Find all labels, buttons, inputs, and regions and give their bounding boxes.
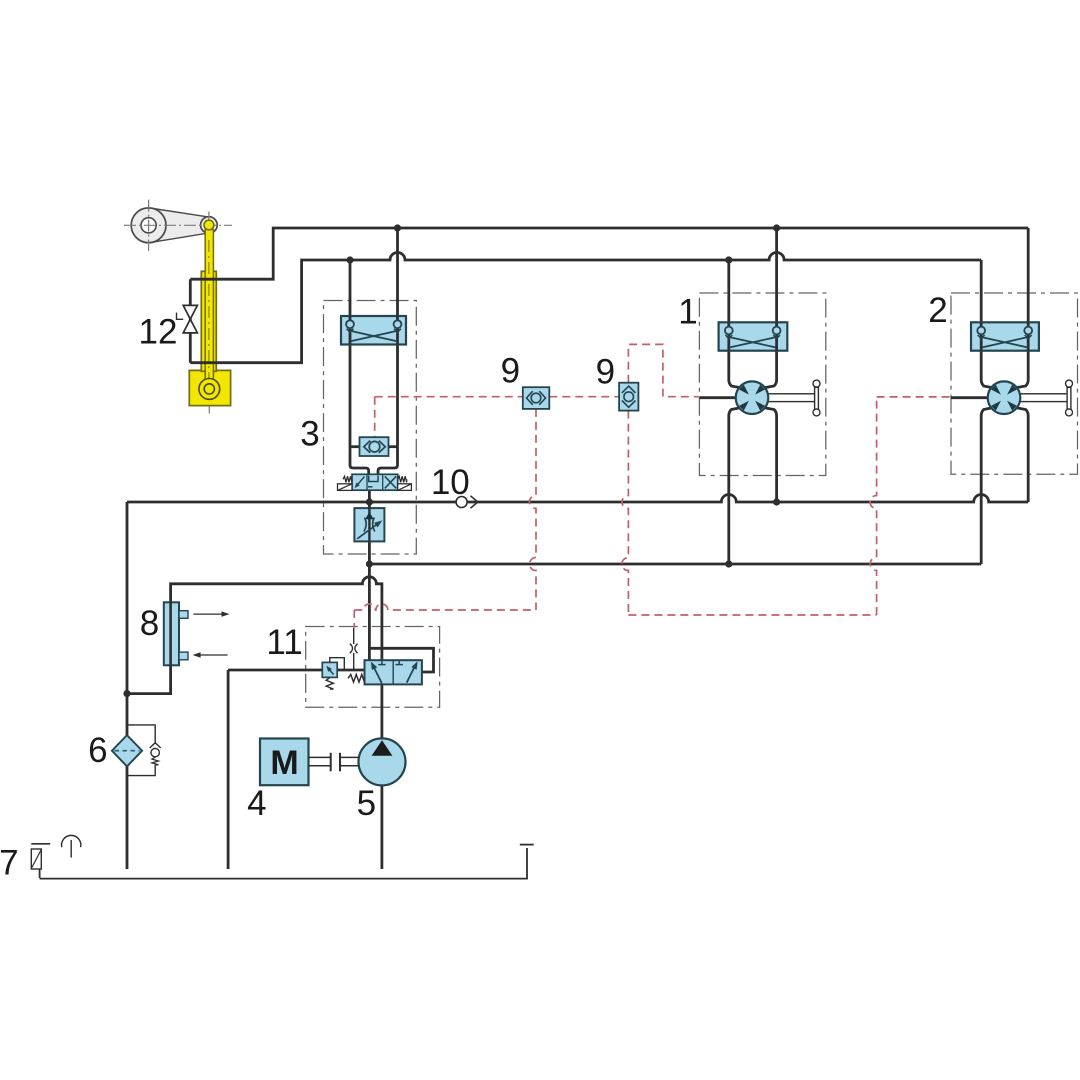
svg-text:12: 12	[139, 312, 178, 351]
svg-text:2: 2	[928, 291, 947, 330]
svg-text:1: 1	[678, 293, 697, 332]
svg-text:9: 9	[501, 352, 520, 391]
svg-text:3: 3	[300, 415, 319, 454]
svg-text:11: 11	[266, 623, 302, 662]
svg-text:9: 9	[596, 353, 615, 392]
svg-text:M: M	[270, 744, 298, 782]
svg-text:5: 5	[357, 784, 376, 823]
svg-text:4: 4	[247, 784, 266, 823]
svg-text:8: 8	[140, 604, 159, 643]
svg-text:6: 6	[88, 731, 107, 770]
svg-text:7: 7	[0, 843, 19, 882]
svg-text:10: 10	[431, 463, 470, 502]
